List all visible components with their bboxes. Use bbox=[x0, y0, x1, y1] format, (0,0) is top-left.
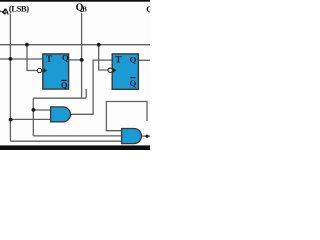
svg-text:Q: Q bbox=[61, 80, 68, 90]
svg-text:Q: Q bbox=[130, 54, 137, 64]
svg-text:Q: Q bbox=[146, 4, 150, 14]
svg-text:B: B bbox=[82, 7, 87, 14]
svg-text:Q: Q bbox=[62, 53, 69, 63]
svg-text:T: T bbox=[46, 55, 53, 65]
svg-text:Q: Q bbox=[130, 78, 137, 88]
svg-text:T: T bbox=[115, 55, 122, 65]
svg-text:(LSB): (LSB) bbox=[9, 3, 29, 13]
